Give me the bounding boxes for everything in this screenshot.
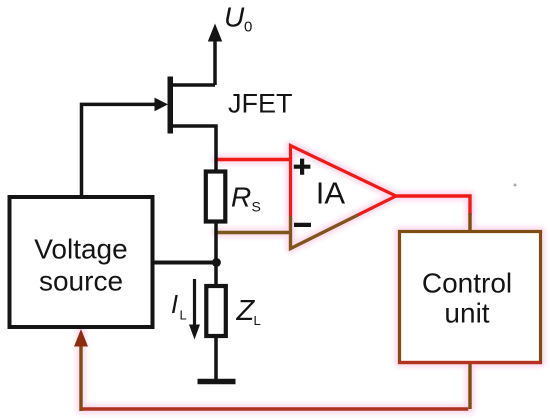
svg-text:Control: Control — [422, 268, 512, 299]
svg-text:source: source — [39, 266, 123, 297]
svg-text:L: L — [180, 308, 187, 323]
svg-text:L: L — [254, 313, 261, 328]
svg-text:0: 0 — [244, 19, 252, 36]
svg-text:R: R — [231, 182, 251, 213]
svg-text:unit: unit — [444, 298, 489, 329]
svg-text:JFET: JFET — [228, 89, 293, 119]
svg-text:I: I — [171, 291, 178, 319]
svg-text:Voltage: Voltage — [34, 234, 127, 265]
svg-text:Z: Z — [236, 295, 256, 327]
svg-text:IA: IA — [316, 176, 346, 211]
svg-text:U: U — [224, 2, 245, 33]
svg-text:S: S — [252, 199, 261, 215]
